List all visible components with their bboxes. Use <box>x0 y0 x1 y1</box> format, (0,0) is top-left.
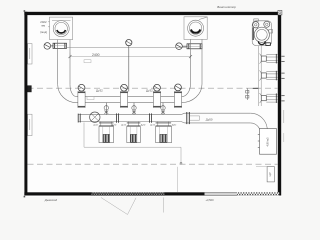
svg-text:ЩР: ЩР <box>269 172 272 176</box>
svg-text:(мод): (мод) <box>40 30 47 34</box>
tiny ticks outside corners <box>24 10 26 12</box>
header valve HV2 <box>120 84 127 107</box>
labels at pump risers <box>94 124 178 126</box>
big pipe flanges <box>187 112 190 124</box>
between-pipe valve BV1 <box>104 103 108 115</box>
boiler B2 square top-mid-right <box>184 17 207 40</box>
reducer on big pipe <box>181 113 185 123</box>
small drop valve near dashed axis <box>246 88 259 100</box>
svg-text:Ду50: Ду50 <box>206 118 213 122</box>
big pipe Du50 to tank <box>185 113 251 123</box>
bottom wall hatched segment right <box>237 192 279 195</box>
wall stub assembly W3 <box>260 93 285 103</box>
pump P3 <box>156 122 172 143</box>
svg-text:2400: 2400 <box>92 53 100 57</box>
pipe elbow E1 (B1 down to header) <box>58 85 77 103</box>
outer wall: left <box>24 12 27 196</box>
boiler B2 dark impeller arc <box>191 30 200 33</box>
flanged connector F2 under B2 <box>187 44 202 49</box>
svg-text:Ду32: Ду32 <box>146 89 153 93</box>
svg-text:+3,500: +3,500 <box>206 198 215 202</box>
ventilation unit top-right <box>252 19 272 46</box>
bottom wall hatched segment mid <box>92 193 165 196</box>
electrical box ShchR bottom-right <box>256 167 274 182</box>
header valve HV3 <box>153 84 160 107</box>
wall stub assembly W2 <box>260 71 285 81</box>
bottom wall solid segment mid-right <box>165 192 205 195</box>
pipe elbow E2 (header up to B2) <box>182 84 202 103</box>
big pipe elbow E3 down to tank <box>250 113 267 133</box>
lower header end cap <box>78 114 80 123</box>
dimension line 2400 between boilers <box>69 53 193 60</box>
pipe pair down from B2 <box>191 39 203 84</box>
boiler B1 dark impeller arc <box>57 30 66 33</box>
pipe pair down from B1 <box>58 40 70 85</box>
header valve HV4 <box>174 84 181 108</box>
between-pipe valve BV3 <box>161 103 165 115</box>
ticks on boiler B1 left edge <box>48 21 49 23</box>
between-pipe valve BV2 <box>132 103 136 115</box>
long stem air vent over header <box>126 40 132 92</box>
leader lines bottom <box>101 167 178 215</box>
outer wall: top <box>24 12 279 15</box>
vent unit connection down <box>259 46 262 106</box>
svg-text:Ду32: Ду32 <box>96 89 103 93</box>
inline union U2 on lower header <box>150 113 152 122</box>
svg-text:Вентилятор: Вентилятор <box>217 5 236 9</box>
bottom wall solid segment left <box>24 192 91 195</box>
dashed axis line upper <box>28 87 278 89</box>
small pump on header left end <box>90 112 100 122</box>
ventilation unit dark marks <box>253 28 270 46</box>
dashed axis line lower <box>28 163 278 165</box>
gas line between boiler connectors <box>67 47 188 49</box>
lower header pipe <box>78 115 181 122</box>
pump P1 <box>99 122 114 143</box>
dark sleeve on left wall <box>27 85 32 92</box>
upper header pipe <box>76 97 181 103</box>
wall stub assembly W1 <box>260 54 285 64</box>
corner marker top-right <box>278 11 282 15</box>
svg-text:4,80 м3: 4,80 м3 <box>266 137 270 147</box>
rotated utility label right of wall <box>283 110 285 123</box>
window in bottom wall <box>205 193 238 195</box>
radiator R1 on left wall <box>28 44 32 64</box>
boiler B1 square top-left <box>50 17 73 39</box>
inline union U1 on lower header <box>117 113 119 122</box>
radiator R2 on left wall <box>28 114 32 135</box>
svg-text:2022: 2022 <box>40 20 47 24</box>
valve V1 with handwheel (left of B1) <box>44 43 53 50</box>
expansion tank box <box>258 129 277 155</box>
pump P2 <box>127 122 141 143</box>
svg-text:мм: мм <box>42 25 46 28</box>
drain line from header <box>84 123 182 165</box>
outer wall: right <box>278 15 281 196</box>
valve V2 with handwheel (left of B2) <box>176 43 187 50</box>
svg-text:Дымоход: Дымоход <box>44 198 58 202</box>
header valve HV1 <box>78 84 85 107</box>
flanged connector F1 under B1 <box>53 43 67 48</box>
tiny tag boxes near elbow E1 <box>84 60 94 100</box>
